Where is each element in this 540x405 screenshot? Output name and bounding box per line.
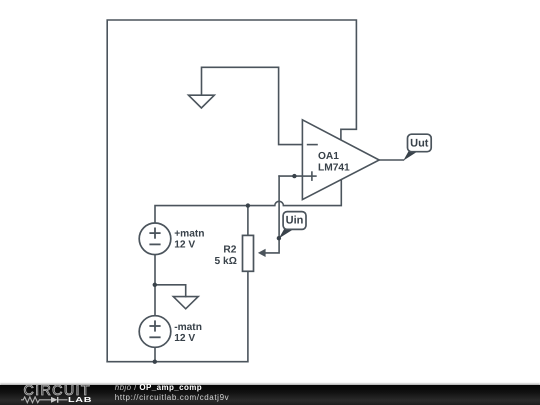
svg-text:12 V: 12 V: [174, 240, 195, 251]
svg-text:Uin: Uin: [286, 214, 304, 226]
svg-text:5 kΩ: 5 kΩ: [215, 256, 237, 267]
svg-text:OA1: OA1: [318, 151, 339, 162]
svg-text:Uut: Uut: [410, 138, 429, 150]
svg-text:12 V: 12 V: [174, 333, 195, 344]
svg-text:R2: R2: [223, 244, 236, 255]
svg-text:-matn: -matn: [174, 322, 202, 333]
svg-text:LM741: LM741: [318, 162, 350, 173]
svg-text:+matn: +matn: [174, 228, 204, 239]
